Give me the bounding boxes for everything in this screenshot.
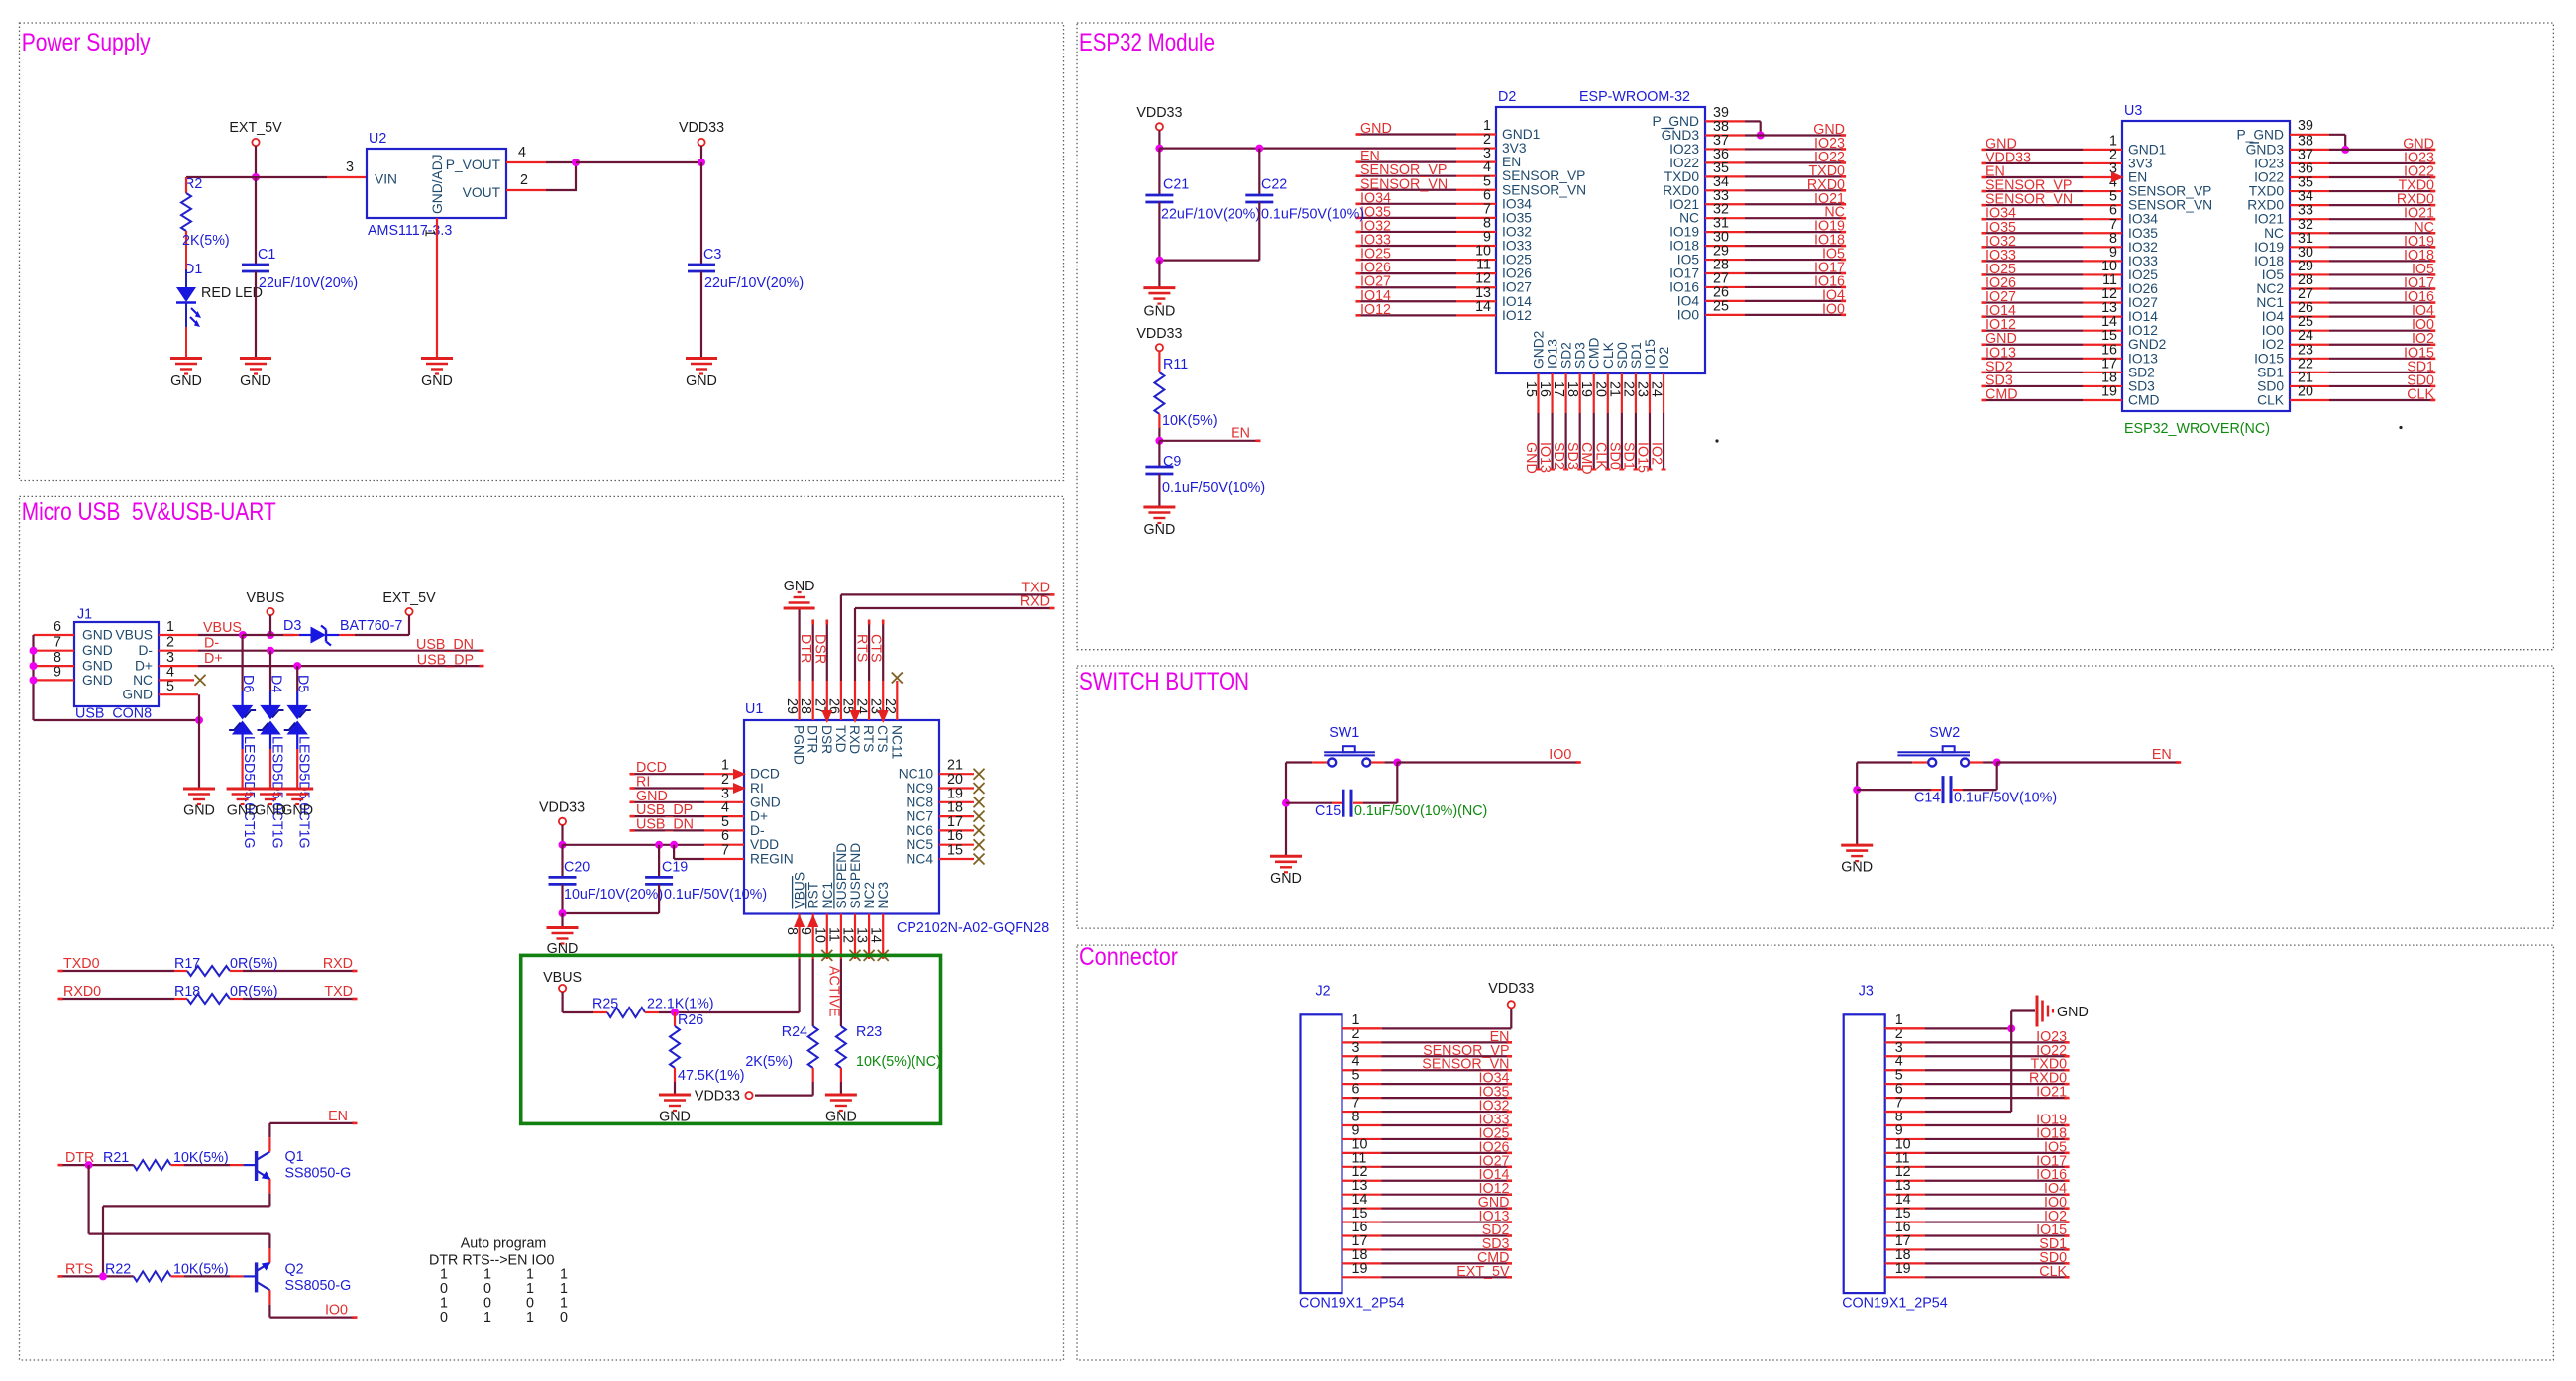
svg-text:13: 13 (854, 927, 870, 943)
svg-text:8: 8 (784, 927, 800, 935)
svg-text:D-: D- (204, 636, 219, 652)
svg-text:EN: EN (328, 1109, 348, 1124)
svg-text:RTS: RTS (65, 1262, 93, 1278)
svg-text:IO15: IO15 (1643, 339, 1658, 369)
svg-text:NC: NC (133, 673, 153, 688)
svg-text:IO14: IO14 (1502, 294, 1532, 309)
svg-text:VIN: VIN (375, 172, 397, 187)
svg-text:VDD33: VDD33 (1136, 105, 1182, 121)
svg-text:IO5: IO5 (2262, 267, 2285, 282)
svg-text:SD0: SD0 (1606, 442, 1622, 470)
svg-text:SD1: SD1 (1620, 442, 1636, 470)
svg-text:DSR: DSR (811, 634, 827, 664)
svg-text:TXD0: TXD0 (2249, 184, 2285, 199)
svg-text:1: 1 (422, 229, 438, 237)
svg-text:GND: GND (170, 373, 202, 389)
svg-text:IO19: IO19 (2254, 240, 2284, 255)
svg-text:J3: J3 (1859, 983, 1874, 999)
svg-text:EXT_5V: EXT_5V (229, 120, 282, 136)
svg-text:NC5: NC5 (906, 837, 933, 852)
svg-text:IO21: IO21 (2036, 1085, 2067, 1101)
svg-text:ACTIVE: ACTIVE (825, 966, 841, 1017)
svg-text:47.5K(1%): 47.5K(1%) (678, 1068, 745, 1084)
svg-text:IO22: IO22 (2254, 170, 2284, 185)
svg-text:IO2: IO2 (1649, 442, 1664, 465)
svg-text:11: 11 (825, 927, 841, 942)
svg-text:RXD0: RXD0 (2247, 198, 2284, 213)
svg-text:0.1uF/50V(10%): 0.1uF/50V(10%) (1261, 207, 1364, 223)
svg-text:VBUS: VBUS (793, 872, 807, 909)
svg-text:RTS: RTS (861, 725, 876, 752)
svg-text:IO34: IO34 (1502, 196, 1532, 211)
svg-text:IO15: IO15 (1634, 442, 1650, 473)
svg-text:GND3: GND3 (1662, 128, 1700, 143)
svg-text:C14: C14 (1914, 790, 1940, 805)
svg-text:IO26: IO26 (2128, 281, 2158, 296)
svg-text:DSR: DSR (819, 725, 834, 754)
svg-text:RED LED: RED LED (201, 285, 263, 301)
svg-text:TXD: TXD (833, 725, 848, 753)
svg-text:SENSOR_VN: SENSOR_VN (2128, 198, 2212, 213)
svg-text:AMS1117-3.3: AMS1117-3.3 (368, 223, 452, 239)
svg-text:IO4: IO4 (1677, 293, 1700, 308)
svg-text:EXT_5V: EXT_5V (1456, 1264, 1510, 1280)
svg-text:0.1uF/50V(10%): 0.1uF/50V(10%) (1954, 790, 2057, 805)
svg-text:GND: GND (686, 373, 717, 389)
svg-text:R26: R26 (678, 1012, 703, 1028)
svg-text:NC11: NC11 (889, 725, 904, 759)
svg-text:CMD: CMD (1587, 338, 1602, 369)
svg-text:SS8050-G: SS8050-G (285, 1278, 352, 1294)
svg-text:SUSPEND: SUSPEND (848, 843, 863, 909)
svg-text:IO35: IO35 (2128, 226, 2158, 241)
svg-text:NC6: NC6 (906, 823, 933, 838)
svg-text:IO13: IO13 (2128, 351, 2158, 366)
svg-text:GND: GND (82, 628, 113, 643)
svg-text:SWITCH BUTTON: SWITCH BUTTON (1079, 668, 1249, 695)
svg-text:SD2: SD2 (2128, 365, 2155, 379)
svg-text:IO0: IO0 (1677, 307, 1700, 322)
svg-text:2K(5%): 2K(5%) (745, 1054, 793, 1070)
svg-text:IO5: IO5 (1677, 253, 1700, 267)
svg-text:LESD5D5.0CT1G: LESD5D5.0CT1G (296, 736, 312, 849)
svg-text:VBUS: VBUS (543, 970, 582, 986)
svg-text:SW2: SW2 (1929, 725, 1960, 741)
svg-text:20: 20 (1592, 381, 1608, 397)
svg-text:C22: C22 (1261, 177, 1287, 193)
svg-text:GND: GND (1144, 522, 1176, 538)
svg-text:SD3: SD3 (1573, 342, 1588, 369)
svg-text:GND: GND (1144, 303, 1176, 319)
svg-text:NC9: NC9 (906, 781, 933, 796)
svg-text:IO27: IO27 (2128, 295, 2158, 310)
svg-text:GND: GND (1841, 860, 1873, 876)
svg-text:CP2102N-A02-GQFN28: CP2102N-A02-GQFN28 (897, 920, 1049, 936)
svg-text:NC3: NC3 (876, 882, 891, 909)
svg-text:DTR: DTR (798, 634, 813, 663)
svg-text:Power Supply: Power Supply (22, 29, 151, 56)
svg-text:SD1: SD1 (2257, 365, 2284, 379)
svg-text:NC2: NC2 (862, 882, 877, 909)
svg-text:CMD: CMD (1986, 386, 2018, 402)
svg-text:SS8050-G: SS8050-G (285, 1166, 352, 1182)
svg-text:C20: C20 (564, 860, 590, 876)
svg-text:20: 20 (2298, 383, 2313, 399)
svg-text:GND2: GND2 (2128, 337, 2166, 352)
svg-text:EXT_5V: EXT_5V (382, 590, 436, 606)
svg-text:NC7: NC7 (906, 809, 933, 824)
svg-text:2K(5%): 2K(5%) (182, 233, 230, 249)
svg-text:D+: D+ (750, 809, 768, 824)
svg-text:C3: C3 (703, 247, 721, 263)
svg-text:IO21: IO21 (1669, 197, 1699, 212)
svg-text:C15: C15 (1315, 803, 1341, 819)
svg-text:GND3: GND3 (2246, 142, 2285, 157)
svg-text:10K(5%)(NC): 10K(5%)(NC) (856, 1054, 941, 1070)
svg-text:9: 9 (798, 927, 813, 935)
svg-text:2: 2 (166, 635, 174, 651)
svg-text:28: 28 (798, 698, 813, 714)
svg-text:GND: GND (82, 643, 113, 658)
svg-text:SD3: SD3 (2128, 378, 2155, 393)
svg-text:R23: R23 (856, 1024, 882, 1040)
svg-text:CLK: CLK (1601, 341, 1616, 369)
svg-text:CON19X1_2P54: CON19X1_2P54 (1842, 1296, 1948, 1312)
svg-text:GND: GND (240, 373, 271, 389)
svg-text:22.1K(1%): 22.1K(1%) (647, 997, 714, 1012)
svg-text:GND: GND (122, 688, 153, 702)
svg-text:10: 10 (811, 927, 827, 943)
svg-text:VDD33: VDD33 (539, 800, 585, 816)
svg-text:GND: GND (183, 803, 215, 819)
svg-text:NC10: NC10 (899, 767, 934, 782)
svg-text:IO26: IO26 (1502, 266, 1532, 281)
svg-text:GND: GND (2057, 1005, 2089, 1020)
svg-text:P_GND: P_GND (2236, 128, 2284, 143)
svg-text:10uF/10V(20%): 10uF/10V(20%) (564, 887, 663, 903)
svg-text:29: 29 (784, 698, 800, 714)
svg-text:IO33: IO33 (1502, 239, 1532, 254)
svg-text:IO0: IO0 (325, 1303, 348, 1319)
svg-text:R22: R22 (105, 1262, 131, 1278)
svg-text:IO27: IO27 (1502, 280, 1532, 295)
svg-text:IO17: IO17 (1669, 266, 1699, 281)
svg-text:IO2: IO2 (2262, 337, 2284, 352)
svg-text:IO23: IO23 (1669, 142, 1699, 157)
svg-text:IO25: IO25 (1502, 253, 1532, 267)
svg-text:0.1uF/50V(10%)(NC): 0.1uF/50V(10%)(NC) (1354, 803, 1487, 819)
svg-text:P_GND: P_GND (1652, 114, 1699, 129)
svg-text:19: 19 (1352, 1261, 1368, 1277)
svg-text:SW1: SW1 (1329, 725, 1359, 741)
svg-text:NC4: NC4 (906, 852, 933, 867)
svg-text:EN: EN (1231, 426, 1250, 442)
svg-text:IO18: IO18 (1669, 239, 1699, 254)
svg-text:RXD: RXD (1020, 594, 1050, 610)
svg-text:GND1: GND1 (2128, 142, 2166, 157)
svg-text:0.1uF/50V(10%): 0.1uF/50V(10%) (1162, 480, 1265, 496)
svg-text:IO12: IO12 (2128, 323, 2158, 338)
svg-text:7: 7 (54, 635, 61, 651)
svg-text:R21: R21 (103, 1150, 129, 1166)
svg-text:Micro USB 5V&USB-UART: Micro USB 5V&USB-UART (22, 498, 276, 526)
svg-text:21: 21 (1606, 381, 1622, 397)
svg-text:GND2: GND2 (1532, 331, 1547, 369)
svg-text:IO33: IO33 (2128, 254, 2158, 268)
svg-text:GND: GND (1270, 871, 1302, 887)
svg-text:IO14: IO14 (2128, 309, 2158, 324)
svg-text:SD0: SD0 (1615, 342, 1630, 369)
svg-text:USB_DP: USB_DP (417, 653, 474, 669)
svg-text:GND: GND (82, 659, 113, 674)
svg-text:IO25: IO25 (2128, 267, 2158, 282)
svg-text:TXD0: TXD0 (1664, 169, 1700, 184)
svg-text:IO12: IO12 (1360, 302, 1391, 318)
svg-text:USB_DN: USB_DN (416, 637, 474, 653)
svg-text:GND: GND (784, 579, 815, 594)
svg-text:IO32: IO32 (2128, 240, 2158, 255)
svg-text:Q1: Q1 (285, 1149, 304, 1165)
svg-text:ESP32_WROVER(NC): ESP32_WROVER(NC) (2124, 421, 2270, 437)
svg-text:CLK: CLK (2257, 392, 2285, 407)
svg-text:U1: U1 (745, 701, 763, 717)
svg-text:VOUT: VOUT (463, 185, 501, 200)
svg-text:SENSOR_VN: SENSOR_VN (1502, 182, 1586, 197)
svg-text:14: 14 (1475, 299, 1491, 315)
svg-text:NC2: NC2 (2256, 281, 2284, 296)
svg-text:SD1: SD1 (1629, 342, 1644, 369)
svg-text:IO19: IO19 (1669, 225, 1699, 240)
svg-text:15: 15 (947, 843, 963, 859)
svg-text:GND: GND (825, 1110, 857, 1125)
svg-text:10K(5%): 10K(5%) (173, 1262, 229, 1278)
svg-text:17: 17 (1551, 381, 1566, 397)
svg-text:4: 4 (518, 145, 526, 160)
svg-text:VDD33: VDD33 (1488, 981, 1534, 997)
svg-text:CMD: CMD (2128, 392, 2159, 407)
svg-text:NC: NC (1679, 211, 1699, 226)
svg-text:RXD: RXD (323, 956, 353, 972)
svg-text:22uF/10V(20%): 22uF/10V(20%) (1161, 207, 1260, 223)
svg-text:1: 1 (166, 619, 174, 635)
svg-text:Connector: Connector (1079, 943, 1178, 971)
svg-text:3V3: 3V3 (2128, 156, 2153, 170)
svg-text:0: 0 (560, 1310, 568, 1326)
svg-text:DTR: DTR (805, 725, 820, 753)
svg-text:J1: J1 (77, 607, 92, 623)
svg-text:25: 25 (1713, 298, 1729, 314)
svg-text:PGND: PGND (792, 725, 806, 765)
svg-text:23: 23 (1634, 381, 1650, 397)
svg-text:IO0: IO0 (1822, 301, 1845, 317)
svg-text:EN: EN (2128, 170, 2147, 185)
svg-text:VDD: VDD (750, 837, 779, 852)
svg-text:22uF/10V(20%): 22uF/10V(20%) (259, 275, 358, 291)
svg-text:SENSOR_VP: SENSOR_VP (1502, 168, 1585, 183)
svg-text:Q2: Q2 (285, 1262, 304, 1278)
svg-text:P_VOUT: P_VOUT (446, 158, 501, 172)
svg-text:ESP32 Module: ESP32 Module (1079, 29, 1215, 56)
svg-text:BAT760-7: BAT760-7 (340, 618, 402, 634)
svg-text:RXD0: RXD0 (1663, 183, 1699, 198)
svg-text:1: 1 (483, 1310, 491, 1326)
svg-text:RXD: RXD (847, 725, 862, 754)
svg-text:D-: D- (138, 643, 153, 658)
svg-text:Auto program: Auto program (461, 1236, 547, 1252)
svg-text:SD3: SD3 (1564, 442, 1580, 470)
svg-text:IO15: IO15 (2254, 351, 2284, 366)
svg-text:18: 18 (1564, 381, 1580, 397)
svg-text:GND: GND (1360, 121, 1392, 137)
svg-text:IO13: IO13 (1546, 339, 1560, 369)
svg-text:D3: D3 (283, 618, 301, 634)
svg-text:ESP-WROOM-32: ESP-WROOM-32 (1579, 89, 1690, 105)
svg-text:14: 14 (868, 927, 884, 943)
svg-text:CLK: CLK (1592, 442, 1608, 470)
svg-text:0: 0 (440, 1310, 448, 1326)
svg-text:IO13: IO13 (1537, 442, 1553, 473)
svg-text:IO35: IO35 (1502, 210, 1532, 225)
svg-text:D2: D2 (1498, 89, 1516, 105)
svg-text:RI: RI (750, 781, 764, 796)
svg-text:12: 12 (840, 927, 856, 943)
svg-text:19: 19 (1895, 1261, 1911, 1277)
svg-text:NC1: NC1 (820, 882, 835, 909)
svg-text:15: 15 (1523, 381, 1539, 397)
svg-text:R11: R11 (1163, 357, 1188, 372)
svg-text:IO0: IO0 (1549, 747, 1571, 763)
svg-text:IO32: IO32 (1502, 224, 1532, 239)
svg-text:5: 5 (166, 679, 174, 694)
svg-text:VDD33: VDD33 (679, 120, 724, 136)
svg-text:IO4: IO4 (2262, 309, 2285, 324)
svg-text:SENSOR_VP: SENSOR_VP (2128, 184, 2211, 199)
svg-text:TXD: TXD (324, 984, 353, 1000)
svg-text:D-: D- (750, 823, 765, 838)
svg-text:IO23: IO23 (2254, 156, 2284, 170)
svg-text:VDD33: VDD33 (1136, 326, 1182, 342)
svg-text:IO21: IO21 (2254, 212, 2284, 227)
svg-text:SD2: SD2 (1551, 442, 1566, 470)
svg-text:CTS: CTS (875, 725, 890, 753)
svg-text:REGIN: REGIN (750, 852, 794, 867)
svg-text:IO16: IO16 (1669, 279, 1699, 294)
svg-text:D+: D+ (135, 659, 153, 674)
svg-text:J2: J2 (1316, 983, 1331, 999)
svg-text:LESD5D5.0CT1G: LESD5D5.0CT1G (241, 736, 257, 849)
svg-text:6: 6 (54, 619, 61, 635)
svg-text:0R(5%): 0R(5%) (230, 984, 277, 1000)
svg-text:1: 1 (526, 1310, 534, 1326)
svg-text:C19: C19 (662, 860, 688, 876)
svg-text:EN: EN (1502, 155, 1521, 169)
svg-text:IO34: IO34 (2128, 212, 2158, 227)
svg-text:22uF/10V(20%): 22uF/10V(20%) (704, 275, 804, 291)
svg-text:0.1uF/50V(10%): 0.1uF/50V(10%) (664, 887, 767, 903)
svg-text:VBUS: VBUS (247, 590, 285, 606)
svg-text:GND: GND (227, 803, 259, 819)
svg-text:D+: D+ (204, 651, 223, 667)
svg-text:GND: GND (659, 1110, 691, 1125)
svg-text:16: 16 (1537, 381, 1553, 397)
svg-text:0R(5%): 0R(5%) (230, 956, 277, 972)
svg-text:IO0: IO0 (2262, 323, 2285, 338)
svg-text:TXD0: TXD0 (63, 956, 100, 972)
svg-text:CLK: CLK (2039, 1264, 2067, 1280)
svg-text:19: 19 (2101, 383, 2117, 399)
svg-text:CTS: CTS (868, 634, 884, 663)
svg-text:3: 3 (346, 159, 354, 175)
svg-text:RXD0: RXD0 (63, 984, 101, 1000)
svg-text:USB_DN: USB_DN (636, 816, 694, 832)
svg-text:3V3: 3V3 (1502, 141, 1527, 156)
svg-text:19: 19 (1578, 381, 1594, 397)
svg-text:IO2: IO2 (1657, 347, 1671, 369)
svg-text:RST: RST (806, 881, 821, 908)
svg-text:D5: D5 (295, 675, 311, 692)
svg-text:SD0: SD0 (2257, 378, 2284, 393)
svg-text:7: 7 (721, 843, 729, 859)
svg-text:2: 2 (520, 172, 528, 188)
svg-text:IO18: IO18 (2254, 254, 2284, 268)
svg-text:NC1: NC1 (2256, 295, 2284, 310)
svg-text:GND: GND (82, 673, 113, 688)
svg-text:NC8: NC8 (906, 795, 933, 809)
svg-text:GND: GND (750, 795, 781, 809)
svg-text:CON19X1_2P54: CON19X1_2P54 (1299, 1296, 1405, 1312)
svg-text:GND: GND (281, 803, 313, 819)
svg-text:GND1: GND1 (1502, 127, 1540, 142)
svg-text:22: 22 (1620, 381, 1636, 397)
svg-text:39: 39 (2298, 118, 2313, 134)
svg-text:VBUS: VBUS (203, 620, 242, 636)
svg-text:C21: C21 (1163, 177, 1189, 193)
svg-text:NC: NC (2264, 226, 2284, 241)
svg-text:IO12: IO12 (1502, 308, 1532, 323)
svg-text:10K(5%): 10K(5%) (173, 1150, 229, 1166)
svg-text:LESD5D5.0CT1G: LESD5D5.0CT1G (269, 736, 285, 849)
svg-text:VBUS: VBUS (115, 628, 153, 643)
svg-text:D4: D4 (268, 675, 284, 692)
svg-text:24: 24 (1649, 381, 1664, 397)
svg-text:DCD: DCD (750, 767, 780, 782)
svg-text:U3: U3 (2124, 103, 2142, 119)
svg-text:GND: GND (421, 373, 453, 389)
svg-text:C1: C1 (258, 247, 275, 263)
svg-text:SD2: SD2 (1559, 342, 1574, 369)
svg-text:SUSPEND: SUSPEND (834, 843, 849, 909)
svg-text:CLK: CLK (2407, 386, 2434, 402)
svg-text:IO22: IO22 (1669, 156, 1699, 170)
svg-text:EN: EN (2152, 747, 2172, 763)
svg-text:VDD33: VDD33 (695, 1089, 740, 1105)
svg-text:D6: D6 (240, 675, 256, 692)
svg-text:GND/ADJ: GND/ADJ (430, 154, 445, 214)
svg-text:U2: U2 (369, 131, 386, 147)
svg-text:9: 9 (54, 664, 61, 680)
svg-text:R24: R24 (782, 1024, 807, 1040)
svg-text:10K(5%): 10K(5%) (1162, 413, 1218, 429)
